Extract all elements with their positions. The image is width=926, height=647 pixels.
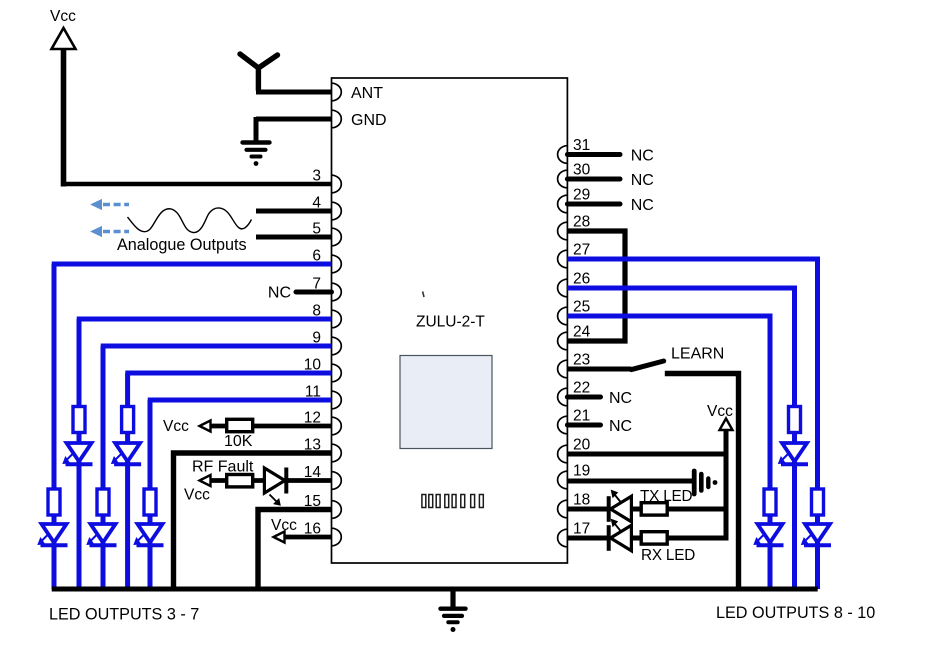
resistor R4 (RX LED): [641, 532, 667, 544]
wire pin 26 run (blue): [567, 288, 794, 291]
wire pin 20 run to Vcc rail: [567, 452, 728, 457]
wire LED chain from pin 6 vertical: [52, 264, 57, 589]
svg-text:25: 25: [573, 299, 590, 316]
pin 17 (right, arc + label): [558, 521, 591, 547]
pin 21 (right, arc + label): [558, 408, 591, 434]
pin 16 (left, arc + label): [304, 520, 342, 545]
svg-text:NC: NC: [609, 390, 632, 407]
wire pin 18 run: [567, 507, 609, 512]
svg-text:10K: 10K: [224, 433, 253, 450]
IC footprint pads row: [422, 495, 483, 508]
svg-text:NC: NC: [268, 285, 291, 302]
pin 8 (left, arc + label): [312, 302, 341, 327]
svg-text:NC: NC: [609, 418, 632, 435]
LED (chain pin 6): [42, 524, 67, 543]
resistor R3 (TX LED): [641, 503, 667, 515]
wire pin GND to ground: [256, 117, 332, 122]
LED (chain pin 26): [782, 443, 807, 462]
wire LEARN contact to ground bus: [665, 374, 739, 590]
analogue signal squiggle: [128, 208, 252, 233]
svg-text:31: 31: [573, 137, 590, 154]
wire pin 3 horizontal run: [61, 182, 332, 187]
svg-text:20: 20: [573, 437, 591, 454]
wire pin 17 run: [567, 536, 609, 541]
pin 18 (right, arc + label): [558, 492, 591, 518]
pin 9 (left, arc + label): [312, 329, 341, 354]
wire LED chain from pin 8 vertical: [77, 319, 82, 589]
wire pin 23 run: [567, 367, 631, 372]
wire Vcc rail vertical: [724, 431, 729, 541]
resistor (LED chain pin 6): [48, 489, 60, 515]
svg-text:28: 28: [573, 214, 590, 231]
switch SW1 LEARN lever: [631, 361, 663, 370]
svg-text:29: 29: [573, 187, 590, 204]
LED D1 RF-fault diode: [264, 468, 286, 506]
svg-text:Analogue Outputs: Analogue Outputs: [117, 236, 247, 254]
wire LED chain from pin 11 vertical: [148, 400, 153, 589]
wire pin 5 stub: [256, 235, 332, 240]
svg-text:GND: GND: [351, 112, 387, 129]
open arrow to Vcc (pin 16): [274, 532, 285, 543]
svg-text:Vcc: Vcc: [184, 487, 210, 504]
pin 25 (right, arc + label): [558, 299, 591, 325]
wire pin 11 run (blue): [148, 398, 332, 403]
wire pin 12 run: [201, 424, 332, 429]
wire pin 28 to pin 24 bracket: [567, 231, 625, 341]
svg-text:LED OUTPUTS 8 - 10: LED OUTPUTS 8 - 10: [716, 604, 875, 622]
wire pin 21 NC stub: [567, 418, 632, 435]
wire antenna to pin ANT: [256, 90, 332, 95]
pin 20 (right, arc + label): [558, 437, 591, 463]
pin 6 (left, arc + label): [312, 247, 341, 272]
wire ground bus: [52, 587, 818, 592]
svg-text:LED OUTPUTS 3 - 7: LED OUTPUTS 3 - 7: [49, 606, 199, 624]
LED (chain pin 9): [91, 524, 116, 543]
wire pin 9 run (blue): [101, 344, 332, 349]
LED D3 RX LED: [609, 519, 632, 551]
pin 14 (left, arc + label): [304, 464, 342, 489]
dashed analogue output arrow (upper): [91, 200, 129, 210]
pin 3 (left, arc + label): [312, 167, 341, 192]
pin ANT (left, arc + label): [332, 83, 384, 102]
svg-text:18: 18: [573, 492, 590, 509]
pin 26 (right, arc + label): [558, 271, 591, 297]
wire pin 10 run (blue): [125, 371, 331, 376]
wire pin 14 run: [201, 478, 332, 483]
svg-text:RX LED: RX LED: [641, 547, 695, 564]
wire pin 13 run + drop to ground bus: [174, 453, 332, 589]
wire LED chain from pin 26 vertical: [792, 288, 797, 589]
resistor (LED chain pin 10): [122, 407, 134, 433]
svg-text:Vcc: Vcc: [163, 418, 189, 435]
pin 5 (left, arc + label): [312, 220, 341, 245]
wire LED chain from pin 10 vertical: [125, 373, 130, 589]
ground symbol (antenna ground): [243, 143, 270, 166]
wire pin 30 NC stub: [567, 172, 653, 189]
svg-text:24: 24: [573, 324, 591, 341]
LED (chain pin 27): [805, 524, 830, 543]
svg-text:26: 26: [573, 271, 590, 288]
wire pin 31 NC stub: [567, 148, 653, 165]
pin 10 (left, arc + label): [304, 356, 342, 381]
svg-text:LEARN: LEARN: [671, 346, 724, 363]
svg-text:17: 17: [573, 521, 590, 538]
pin 29 (right, arc + label): [558, 187, 591, 213]
wire LED chain from pin 27 vertical: [815, 259, 820, 589]
svg-text:27: 27: [573, 242, 590, 259]
pin 28 (right, arc + label): [558, 214, 591, 240]
svg-text:23: 23: [573, 352, 590, 369]
pin 19 (right, arc + label): [558, 463, 591, 489]
antenna ANT1: [240, 54, 278, 90]
wire pin 4 stub: [256, 209, 332, 214]
pin 4 (left, arc + label): [312, 194, 341, 219]
svg-text:Vcc: Vcc: [50, 8, 76, 25]
svg-text:30: 30: [573, 162, 591, 179]
pin 27 (right, arc + label): [558, 242, 591, 268]
wire Vcc stem down to pin 3 row: [61, 50, 67, 187]
svg-text:NC: NC: [631, 148, 654, 165]
wire LED chain from pin 25 vertical: [768, 316, 773, 589]
pin 31 (right, arc + label): [558, 137, 591, 163]
svg-text:22: 22: [573, 380, 590, 397]
wire LED chain from pin 9 vertical: [101, 346, 106, 589]
wire pin 22 NC stub: [567, 390, 632, 407]
LED (chain pin 11): [138, 524, 163, 543]
resistor R2 (RF fault): [227, 475, 253, 487]
pin 13 (left, arc + label): [304, 436, 342, 461]
pin GND (left, arc + label): [332, 110, 387, 129]
wire pin 8 run (blue): [77, 317, 332, 322]
power symbol Vcc (top-left): [50, 8, 76, 49]
wire pin 6 run (blue): [52, 262, 332, 267]
resistor (LED chain pin 25): [764, 489, 776, 515]
pin 22 (right, arc + label): [558, 380, 591, 406]
pin 11 (left, arc + label): [305, 383, 341, 408]
wire pin 25 run (blue): [567, 316, 770, 319]
wire pin 7 NC stub: [268, 285, 332, 302]
resistor (LED chain pin 11): [144, 489, 156, 515]
wire pin 15 run + drop to ground bus: [258, 510, 332, 590]
open arrow to Vcc (pin 14): [200, 475, 211, 486]
pin 12 (left, arc + label): [304, 409, 342, 434]
LED (chain pin 25): [758, 524, 783, 543]
LED (chain pin 8): [67, 443, 92, 462]
pin 30 (right, arc + label): [558, 162, 591, 188]
svg-text:NC: NC: [631, 197, 654, 214]
wire pin 29 NC stub: [567, 197, 653, 214]
resistor (LED chain pin 26): [789, 407, 801, 433]
pin 24 (right, arc + label): [558, 324, 591, 350]
svg-text:ZULU-2-T: ZULU-2-T: [416, 314, 485, 331]
svg-text:Vcc: Vcc: [707, 403, 733, 420]
IC U1 body ZULU-2-T module outline: [332, 78, 568, 563]
wire pin 19 run: [567, 479, 693, 484]
pin 7 (left, arc + label): [312, 275, 341, 300]
resistor (LED chain pin 8): [73, 407, 85, 433]
LED D2 TX LED: [609, 490, 632, 522]
LED (chain pin 10): [115, 443, 140, 462]
wire TX LED to resistor: [631, 507, 728, 512]
pin 23 (right, arc + label): [558, 352, 591, 378]
wire RX LED to Vcc rail: [631, 536, 728, 541]
tick mark above label: [423, 292, 424, 298]
ground symbol (pin 19, rotated): [694, 471, 717, 494]
wire pin 16 run: [275, 535, 332, 540]
open arrow to Vcc (pin 12): [200, 421, 211, 432]
IC inner chip square: [400, 356, 492, 449]
power symbol Vcc (right rail): [707, 403, 733, 430]
wire pin 27 run (blue): [567, 259, 817, 262]
dashed analogue output arrow (lower): [91, 227, 129, 237]
svg-text:19: 19: [573, 463, 590, 480]
pin 15 (left, arc + label): [304, 493, 342, 518]
resistor (LED chain pin 27): [812, 489, 824, 515]
resistor (LED chain pin 9): [97, 489, 109, 515]
ground symbol (main, bottom centre): [441, 589, 466, 632]
svg-text:ANT: ANT: [351, 85, 383, 102]
svg-text:NC: NC: [631, 172, 654, 189]
svg-text:21: 21: [573, 408, 590, 425]
resistor R1 10K: [227, 419, 253, 431]
